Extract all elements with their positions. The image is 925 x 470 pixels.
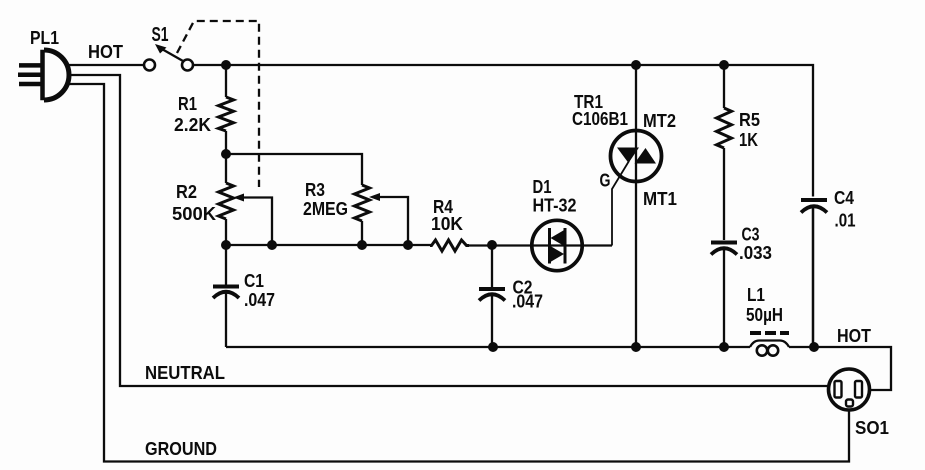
svg-text:SO1: SO1 — [855, 418, 889, 438]
svg-text:C106B1: C106B1 — [572, 109, 628, 129]
svg-text:C3: C3 — [742, 225, 760, 245]
svg-text:.033: .033 — [739, 243, 772, 263]
svg-text:R5: R5 — [739, 110, 760, 130]
svg-text:.047: .047 — [512, 292, 543, 312]
svg-text:1K: 1K — [739, 130, 758, 150]
svg-text:2MEG: 2MEG — [303, 199, 348, 219]
svg-text:R1: R1 — [178, 94, 197, 114]
svg-text:50µH: 50µH — [746, 305, 783, 325]
svg-text:GROUND: GROUND — [145, 439, 217, 459]
svg-text:D1: D1 — [533, 177, 552, 197]
svg-text:S1: S1 — [152, 24, 169, 46]
svg-text:G: G — [600, 171, 611, 191]
svg-text:NEUTRAL: NEUTRAL — [145, 363, 225, 383]
svg-text:.047: .047 — [244, 290, 275, 310]
svg-text:L1: L1 — [747, 285, 765, 305]
svg-text:PL1: PL1 — [30, 28, 59, 48]
svg-text:MT1: MT1 — [643, 189, 677, 209]
svg-text:C4: C4 — [834, 188, 854, 208]
svg-text:MT2: MT2 — [643, 111, 676, 131]
svg-text:.01: .01 — [835, 211, 856, 231]
svg-text:500K: 500K — [172, 204, 216, 224]
svg-text:R2: R2 — [176, 182, 197, 202]
svg-text:10K: 10K — [431, 214, 463, 234]
svg-text:HOT: HOT — [88, 42, 123, 62]
svg-text:2.2K: 2.2K — [174, 115, 211, 135]
svg-text:HOT: HOT — [837, 326, 871, 346]
svg-text:R3: R3 — [305, 180, 325, 200]
svg-text:C1: C1 — [244, 271, 264, 291]
svg-text:HT-32: HT-32 — [533, 196, 577, 216]
